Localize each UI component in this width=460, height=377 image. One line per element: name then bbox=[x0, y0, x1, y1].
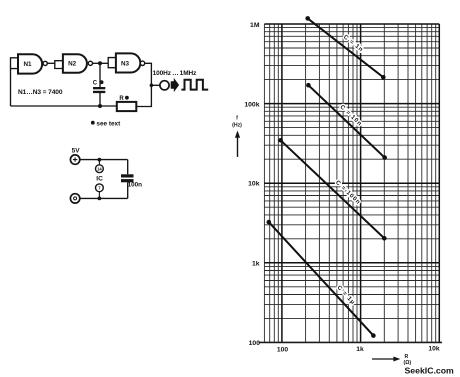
curve C = 10n bbox=[308, 85, 384, 157]
node: junction of C with bottom rail bbox=[98, 104, 102, 108]
node: output junction bbox=[150, 84, 154, 88]
pin 7 circle bbox=[96, 184, 104, 192]
svg-text:R: R bbox=[405, 354, 409, 360]
nand gate N3 bbox=[116, 53, 140, 72]
wire: N1 output to N2 input bbox=[47, 62, 55, 64]
arrow: output signal arrow bbox=[171, 78, 179, 92]
svg-text:100: 100 bbox=[249, 340, 261, 347]
svg-text:10k: 10k bbox=[248, 181, 260, 188]
terminal 0V bbox=[70, 194, 79, 203]
svg-text:100: 100 bbox=[277, 346, 288, 353]
chart minor gridlines vertical bbox=[264, 24, 435, 342]
svg-text:1k: 1k bbox=[356, 346, 364, 353]
nand gate N1 bbox=[18, 54, 42, 73]
wire: N2 output to N3 input bbox=[93, 62, 109, 64]
pin 14 circle bbox=[96, 165, 104, 173]
svg-text:10k: 10k bbox=[428, 345, 439, 352]
square wave symbol bbox=[181, 80, 208, 90]
svg-text:100n: 100n bbox=[128, 182, 143, 189]
wire: N3 input tie bar bbox=[108, 58, 116, 68]
svg-text:C: C bbox=[93, 81, 98, 87]
x axis line (f = 100) bbox=[259, 341, 443, 343]
output terminal circle bbox=[160, 81, 169, 90]
capacitor 100n plates bbox=[121, 174, 134, 177]
inverter bubble of N2 bbox=[88, 61, 92, 65]
wire: N1 input tie bar and feedback wire down left side bbox=[11, 58, 19, 106]
nand gate N2 bbox=[63, 54, 87, 73]
wire: junction to pin 14 bbox=[98, 160, 100, 165]
svg-text:N3: N3 bbox=[121, 61, 130, 68]
curve C = 1n bbox=[308, 18, 384, 77]
wire: bottom feedback rail bbox=[11, 105, 117, 107]
svg-text:SeekIC.com: SeekIC.com bbox=[405, 366, 455, 376]
node: junction of N2 output with capacitor C bbox=[98, 61, 102, 65]
svg-text:(Hz): (Hz) bbox=[232, 123, 242, 129]
x axis title R (ohm) with right arrow bbox=[372, 358, 395, 360]
wire: N2 input tie bar bbox=[55, 61, 63, 69]
svg-text:1k: 1k bbox=[252, 260, 260, 267]
chart major gridlines horizontal (1k, 10k, 100k, 1M) bbox=[264, 24, 439, 263]
svg-text:f: f bbox=[236, 116, 238, 122]
wire: capacitor C bottom plate to bottom rail bbox=[99, 93, 101, 106]
wire: N3 output right then down to resistor R bbox=[136, 63, 151, 106]
svg-text:N1: N1 bbox=[23, 61, 32, 68]
wire: 0V rail bbox=[80, 197, 128, 199]
chart minor gridlines horizontal bbox=[264, 28, 439, 319]
node: junction on 0V rail bbox=[98, 197, 102, 201]
svg-text:14: 14 bbox=[97, 166, 102, 171]
curve C = 100n bbox=[281, 140, 385, 238]
svg-text:1M: 1M bbox=[250, 22, 260, 29]
inverter bubble of N1 bbox=[43, 61, 47, 65]
wire: junction to output terminal bbox=[151, 84, 159, 86]
node: junction on +5V rail bbox=[98, 158, 102, 162]
curve C = 1u bbox=[269, 222, 374, 336]
svg-text:R: R bbox=[119, 96, 124, 102]
svg-text:N1…N3 = 7400: N1…N3 = 7400 bbox=[18, 89, 63, 96]
capacitor C plates bbox=[93, 87, 105, 89]
wire: +5V rail bbox=[80, 159, 128, 161]
svg-text:5V: 5V bbox=[72, 148, 81, 155]
svg-text:100Hz … 1MHz: 100Hz … 1MHz bbox=[153, 70, 198, 77]
inverter bubble of N3 bbox=[140, 61, 144, 65]
resistor R bbox=[117, 102, 137, 111]
svg-text:IC: IC bbox=[96, 176, 103, 183]
chart major gridlines vertical (100, 1k, 10k) bbox=[282, 24, 439, 342]
svg-text:100k: 100k bbox=[244, 101, 259, 108]
label * see text bbox=[91, 121, 95, 125]
wire: pin 7 to 0V rail bbox=[98, 192, 100, 199]
wire: decoupling capacitor leads bbox=[127, 160, 129, 199]
wire: junction down to capacitor C top plate bbox=[99, 63, 101, 87]
svg-text:N2: N2 bbox=[68, 61, 77, 68]
terminal +5V bbox=[70, 155, 79, 164]
svg-text:see text: see text bbox=[96, 120, 121, 127]
